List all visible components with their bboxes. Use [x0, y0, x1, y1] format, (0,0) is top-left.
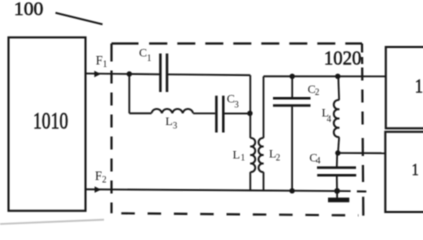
capacitor C4 bottom plate	[317, 174, 356, 177]
svg-text:F1: F1	[96, 53, 107, 69]
node B junction dot	[247, 111, 252, 116]
svg-text:F2: F2	[95, 169, 106, 185]
upper right box	[386, 47, 423, 128]
wire L2 bottom lead	[263, 172, 265, 191]
svg-text:1010: 1010	[33, 108, 68, 134]
ground stem	[336, 191, 338, 198]
svg-text:4: 4	[327, 114, 332, 124]
svg-text:1: 1	[147, 53, 152, 63]
wire branch down from node A	[128, 74, 130, 113]
arrow F1	[94, 71, 101, 77]
svg-text:L: L	[233, 147, 240, 161]
dashed box 1020 left edge	[110, 44, 112, 214]
node C2 top junction dot	[290, 74, 295, 79]
svg-text:2: 2	[315, 87, 320, 97]
inductor L3	[152, 109, 194, 113]
arrow F2	[95, 186, 102, 192]
svg-text:4: 4	[316, 155, 321, 165]
svg-text:100: 100	[14, 0, 43, 20]
node L4 bottom junction dot	[335, 150, 340, 155]
capacitor C4 stem bottom	[336, 176, 338, 191]
inductor L4 bottom lead	[338, 137, 339, 153]
capacitor C1 right plate	[166, 54, 169, 93]
capacitor C1 left plate	[159, 54, 162, 93]
capacitor C2 stem top	[291, 76, 293, 97]
node A junction dot	[127, 71, 132, 76]
dash of bottom wire crossing dashed border	[357, 190, 366, 192]
svg-text:1020: 1020	[324, 48, 362, 70]
svg-text:1: 1	[412, 160, 419, 179]
svg-text:C: C	[139, 46, 147, 60]
wire L1 bottom lead	[249, 172, 251, 190]
node ground junction dot	[334, 188, 340, 194]
dashed box 1020 bottom edge	[121, 213, 358, 215]
svg-text:1: 1	[241, 152, 246, 162]
node L4 top junction dot	[335, 74, 340, 79]
dashed box 1020 right edge	[362, 44, 363, 216]
wire branch to L3	[129, 112, 151, 114]
box 1010	[9, 37, 86, 210]
capacitor C2 bottom plate	[273, 104, 311, 107]
inductor L4	[334, 100, 340, 137]
capacitor C4 top plate	[317, 166, 356, 169]
node C2 bottom junction dot	[289, 188, 294, 193]
wire secondary top	[264, 75, 386, 77]
capacitor C2 stem bottom	[291, 107, 293, 191]
wire L3 to C3	[193, 112, 215, 114]
capacitor C3 left plate	[215, 96, 218, 133]
svg-text:L: L	[165, 114, 172, 128]
capacitor C3 right plate	[222, 96, 225, 133]
wire primary right vertical	[249, 75, 251, 138]
wire to output lower box	[338, 152, 386, 154]
wire F1 input	[85, 73, 160, 76]
scan smudge bottom left	[0, 220, 104, 224]
lower right box	[385, 132, 423, 212]
svg-text:2: 2	[276, 152, 281, 162]
wire C3 to node B	[223, 113, 250, 115]
inductor L1	[250, 138, 255, 172]
capacitor C2 top plate	[273, 97, 311, 100]
dashed box 1020 top edge	[112, 42, 363, 44]
svg-text:3: 3	[234, 99, 239, 109]
pointer line for 100	[56, 13, 103, 24]
ground bar	[328, 198, 349, 203]
wire bottom F2 to ground node	[85, 189, 351, 191]
inductor L4 top lead	[337, 76, 340, 100]
capacitor C4 stem top	[336, 153, 338, 167]
inductor L2	[259, 138, 264, 172]
wire C1 to corner	[167, 73, 250, 76]
svg-text:1: 1	[415, 76, 423, 98]
inductor L2 top lead	[263, 76, 265, 138]
svg-text:3: 3	[173, 121, 178, 131]
